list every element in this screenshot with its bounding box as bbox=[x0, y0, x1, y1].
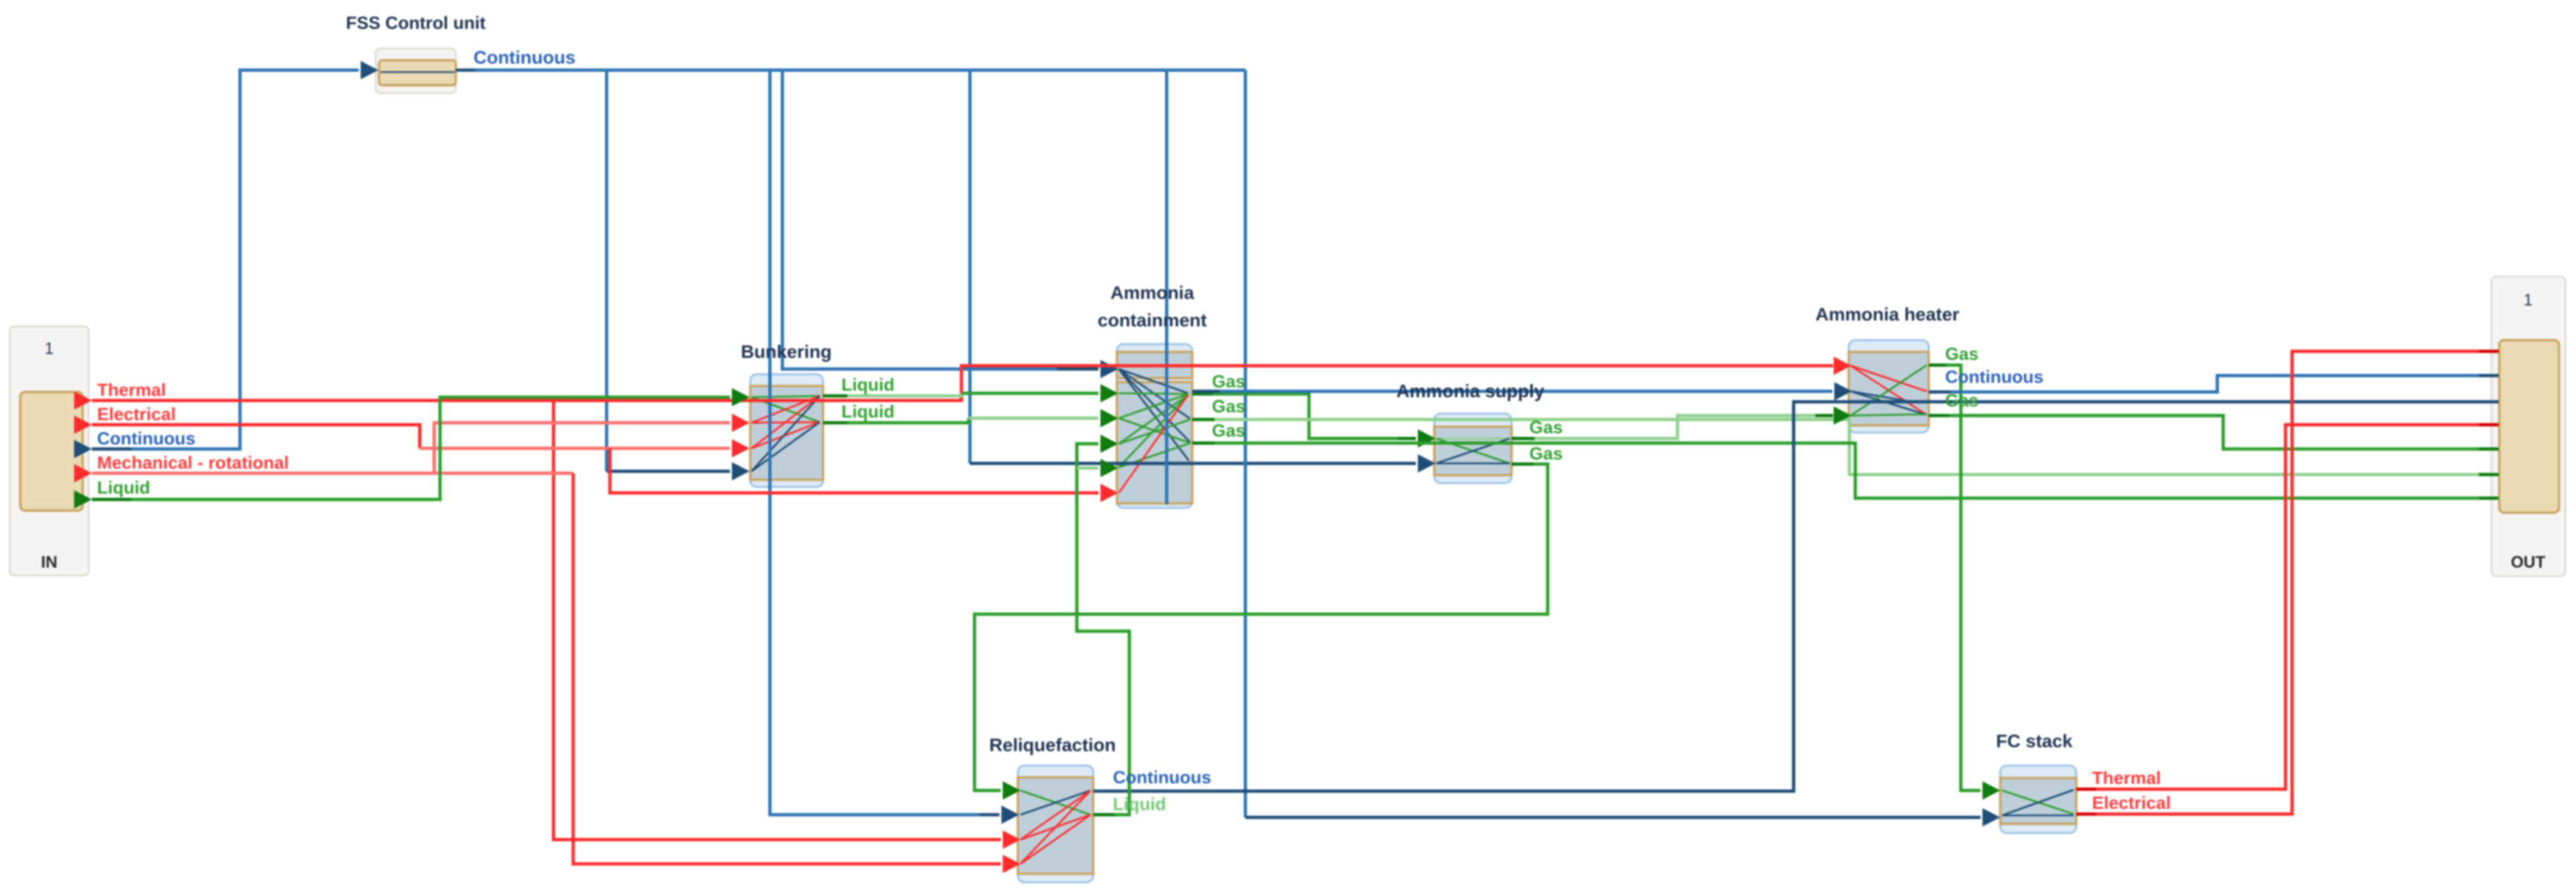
wire IN.Continuous to FSS (blue) bbox=[92, 61, 378, 449]
wire containment Gas 3 to OUT (green) bbox=[1192, 443, 2499, 498]
label Gas at heater output 1 bbox=[1945, 344, 1979, 364]
svg-text:Gas: Gas bbox=[1529, 418, 1563, 437]
title FSS Control unit bbox=[346, 13, 486, 33]
wire FSS drop to Bunkering (blue) bbox=[607, 70, 750, 480]
wire IN.Mechanical to Reliquefaction input 2 (red) bbox=[92, 473, 1020, 873]
label Continuous at IN bbox=[97, 429, 195, 448]
label Liquid at IN bbox=[97, 478, 150, 497]
svg-text:IN: IN bbox=[41, 553, 58, 572]
wire Reliquefaction Continuous to OUT (blue) bbox=[1093, 402, 2499, 791]
wire FSS drop to Reliquefaction (blue) bbox=[770, 70, 1019, 824]
svg-text:Gas: Gas bbox=[1945, 391, 1979, 410]
label Liquid at Bunkering output 1 bbox=[841, 375, 895, 395]
block Ammonia supply bbox=[1434, 414, 1512, 483]
svg-text:Reliquefaction: Reliquefaction bbox=[990, 735, 1116, 755]
block FC stack bbox=[2000, 766, 2076, 833]
internal flows of Ammonia containment bbox=[1119, 369, 1190, 493]
svg-text:Liquid: Liquid bbox=[841, 402, 895, 421]
wire heater Gas 2 to OUT (green) bbox=[1929, 416, 2499, 449]
label Gas at supply output 1 bbox=[1529, 418, 1563, 437]
svg-text:Continuous: Continuous bbox=[1945, 367, 2043, 387]
label Liquid at Bunkering output 2 bbox=[841, 402, 895, 421]
wire Bunkering Liquid 2 to containment (green) bbox=[823, 409, 1118, 427]
label Liquid at Reliquefaction output bbox=[1113, 794, 1166, 814]
wire FSS drop to Ammonia supply (blue) bbox=[970, 70, 1436, 473]
wire FC Electrical to OUT (red) bbox=[2076, 351, 2499, 814]
block Bunkering bbox=[750, 374, 823, 487]
wire containment Continuous out to heater (blue) bbox=[1192, 382, 1852, 400]
svg-text:Electrical: Electrical bbox=[2092, 793, 2171, 813]
wire supply Gas 1 to heater (green) bbox=[1512, 406, 1851, 438]
svg-text:Electrical: Electrical bbox=[97, 404, 176, 424]
svg-text:Continuous: Continuous bbox=[1113, 768, 1211, 787]
svg-text:Gas: Gas bbox=[1945, 344, 1979, 364]
svg-text:Gas: Gas bbox=[1212, 372, 1245, 391]
wire Thermal branch to Reliquefaction input 1 (red) bbox=[553, 400, 1020, 849]
svg-text:Liquid: Liquid bbox=[841, 375, 895, 395]
block Reliquefaction bbox=[1018, 766, 1093, 882]
internal flows of FC stack bbox=[2002, 790, 2074, 815]
title Bunkering bbox=[741, 341, 832, 362]
svg-text:Gas: Gas bbox=[1212, 397, 1245, 416]
label Thermal at FC stack output bbox=[2092, 768, 2161, 788]
svg-text:FC stack: FC stack bbox=[1996, 731, 2073, 751]
wire FSS drop to Ammonia containment (blue) bbox=[782, 70, 1118, 378]
label Gas at supply output 2 bbox=[1529, 444, 1563, 463]
wire IN.Liquid to Bunkering (green) bbox=[92, 388, 750, 499]
label Continuous at FSS output bbox=[473, 47, 576, 68]
label Gas at heater output 2 bbox=[1945, 391, 1979, 410]
svg-text:Mechanical - rotational: Mechanical - rotational bbox=[97, 453, 289, 473]
svg-text:Continuous: Continuous bbox=[97, 429, 195, 448]
internal flows of Ammonia supply bbox=[1436, 438, 1510, 463]
wire FSS drop into containment top (blue) bbox=[1165, 70, 1169, 505]
wire containment Gas 1 to Ammonia supply (green) bbox=[1192, 394, 1436, 448]
wire IN.Thermal to Ammonia heater (red) bbox=[92, 357, 1851, 400]
label Continuous at Reliquefaction output bbox=[1113, 768, 1211, 787]
svg-text:Ammonia heater: Ammonia heater bbox=[1815, 304, 1959, 324]
svg-text:Continuous: Continuous bbox=[473, 47, 576, 68]
label Electrical at IN bbox=[97, 404, 176, 424]
label Electrical at FC stack output bbox=[2092, 793, 2171, 813]
wire FSS Continuous trunk (blue) bbox=[456, 69, 1245, 72]
svg-text:1: 1 bbox=[2524, 291, 2533, 309]
wire Electrical branch to containment red input (red) bbox=[610, 448, 1118, 502]
svg-text:Gas: Gas bbox=[1529, 444, 1563, 463]
label Continuous at heater output bbox=[1945, 367, 2043, 387]
svg-text:Thermal: Thermal bbox=[97, 380, 166, 400]
block Ammonia heater bbox=[1849, 340, 1929, 433]
wire Bunkering Liquid 1 to containment (green) bbox=[823, 384, 1118, 402]
title Reliquefaction bbox=[990, 735, 1116, 755]
svg-text:1: 1 bbox=[45, 340, 54, 358]
block Ammonia containment bbox=[1117, 344, 1192, 508]
wire heater Gas 1 to FC stack (green) bbox=[1929, 365, 2000, 800]
svg-text:Thermal: Thermal bbox=[2092, 768, 2161, 788]
block OUT (sink node) bbox=[2491, 277, 2566, 576]
wire heater Continuous to OUT (blue) bbox=[1929, 376, 2499, 392]
block IN (source node) bbox=[10, 326, 89, 575]
svg-text:Ammonia supply: Ammonia supply bbox=[1396, 381, 1544, 401]
svg-text:FSS Control unit: FSS Control unit bbox=[346, 13, 486, 33]
wire Mechanical branch to Bunkering red input 1 (red) bbox=[434, 414, 750, 473]
wire containment Gas 2 to OUT (green) bbox=[1192, 419, 2499, 475]
internal flows of Ammonia heater bbox=[1851, 365, 1927, 416]
internal flows of Reliquefaction bbox=[1020, 790, 1091, 864]
title Ammonia containment bbox=[1098, 282, 1207, 330]
label Gas at containment output 2 bbox=[1212, 397, 1245, 416]
svg-text:Gas: Gas bbox=[1212, 421, 1245, 440]
svg-text:containment: containment bbox=[1098, 310, 1207, 330]
svg-text:Bunkering: Bunkering bbox=[741, 341, 832, 362]
svg-text:Liquid: Liquid bbox=[97, 478, 150, 497]
wire IN.Electrical to Bunkering (red) bbox=[92, 425, 750, 458]
title FC stack bbox=[1996, 731, 2073, 751]
title Ammonia heater bbox=[1815, 304, 1959, 324]
label Mechanical - rotational at IN bbox=[97, 453, 289, 473]
svg-text:Liquid: Liquid bbox=[1113, 794, 1166, 814]
label Gas at containment output 1 bbox=[1212, 372, 1245, 391]
internal flows of Bunkering bbox=[752, 396, 820, 471]
title Ammonia supply bbox=[1396, 381, 1544, 401]
wire Reliquefaction Liquid return to containment (green) bbox=[1077, 435, 1129, 815]
label Thermal at IN bbox=[97, 380, 166, 400]
wire FC Thermal to OUT (red) bbox=[2076, 425, 2499, 789]
svg-text:Ammonia: Ammonia bbox=[1110, 282, 1194, 303]
label Gas at containment output 3 bbox=[1212, 421, 1245, 440]
port arrows at IN block bbox=[74, 391, 92, 509]
wire supply Gas 2 to Reliquefaction (green) bbox=[975, 464, 1548, 800]
block FSS Control unit bbox=[376, 49, 456, 93]
svg-text:OUT: OUT bbox=[2511, 553, 2546, 572]
wire FSS drop to FC stack (blue) bbox=[1245, 70, 2000, 827]
